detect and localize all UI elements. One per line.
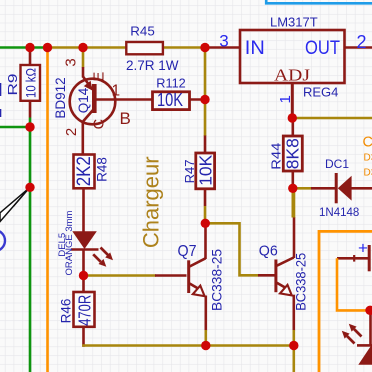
svg-text:10 kΩ: 10 kΩ [24, 68, 39, 98]
svg-text:BC338-25: BC338-25 [209, 249, 224, 311]
junction at Q14 emitter branch [78, 43, 87, 52]
wire dark-yellow horizontal top left of R45 [48, 46, 127, 49]
svg-text:2: 2 [356, 32, 366, 52]
svg-text:BD912: BD912 [53, 77, 68, 118]
resistor R46 [82, 276, 85, 293]
junction below LED DEL5 [79, 271, 88, 280]
svg-text:C: C [363, 135, 372, 151]
connector circle arc left edge [0, 230, 5, 251]
wire dark-red from LM317 OUT pin to right edge [345, 46, 372, 49]
junction at R112 output [200, 95, 209, 104]
resistor R9 [21, 65, 41, 101]
wire green horizontal top [0, 46, 49, 49]
svg-text:ORANGE 3mm: ORANGE 3mm [64, 210, 75, 275]
wire orange vertical [46, 48, 49, 372]
svg-text:E: E [92, 71, 108, 81]
wire yellow LED junction to Q7 base [83, 274, 156, 277]
svg-text:10K: 10K [157, 89, 184, 110]
svg-text:2: 2 [63, 128, 80, 136]
regulator REG4 LM317T [240, 30, 345, 83]
svg-text:IN: IN [245, 37, 265, 59]
wire R112 right to junction [190, 98, 207, 101]
svg-text:R46: R46 [59, 299, 74, 324]
junction at LM317 IN branch [200, 43, 209, 52]
svg-text:R44: R44 [268, 143, 283, 170]
wire yellow Q7 emitter to bottom rail [205, 330, 208, 346]
junction at orange branch [43, 43, 52, 52]
connector needle black pointer [0, 187, 30, 221]
svg-text:Q7: Q7 [178, 243, 197, 260]
transistor Q14 BD912 [70, 77, 153, 155]
wire R9 top pin [29, 48, 32, 66]
transistor Q6 BC338-25 [274, 217, 294, 331]
net label sliver left edge [0, 83, 1, 96]
junction at Q6 emitter bottom [289, 341, 298, 350]
svg-text:DC1: DC1 [325, 157, 349, 171]
frame orange box bottom right [319, 231, 372, 372]
resistor R47 [196, 153, 215, 189]
junction below R47 [201, 219, 210, 228]
bus cyan line top right [266, 0, 372, 3]
wire dark-red R47 top pin [204, 136, 207, 154]
svg-text:BC338-25: BC338-25 [294, 253, 309, 311]
wire green horizontal into dot at y127 [0, 126, 30, 129]
svg-text:1N4148: 1N4148 [319, 207, 359, 219]
wire dark-red Q14 emitter pin [82, 67, 85, 78]
LED arrows [347, 336, 355, 344]
svg-text:D3: D3 [364, 153, 372, 164]
svg-text:1: 1 [277, 95, 294, 103]
junction at LM317 ADJ [288, 113, 297, 122]
wire yellow junction to Q6 base [205, 223, 258, 275]
wire yellow diode junction [293, 187, 312, 190]
net label sliver2 left edge [0, 109, 1, 117]
wire dark-red Q7 base pin [155, 274, 187, 277]
wire yellow Q6 emitter to bottom rail [292, 330, 295, 346]
wire dark-yellow Q14 emitter net [82, 48, 85, 68]
wire dark-red Q7 collector pin [204, 223, 207, 259]
wire 2K2 to LED [82, 188, 85, 232]
svg-text:ADJ: ADJ [274, 66, 310, 85]
wire ADJ pin [291, 83, 294, 119]
svg-text:REG4: REG4 [303, 85, 338, 100]
svg-text:3: 3 [63, 58, 80, 66]
svg-text:R9: R9 [5, 74, 20, 96]
wire yellow R47 to junction [204, 206, 207, 223]
svg-text:Chargeur: Chargeur [138, 156, 163, 248]
svg-text:2K2: 2K2 [74, 156, 95, 186]
svg-text:+: + [358, 239, 368, 258]
wire yellow junction down to Q6 collector [291, 188, 294, 217]
resistor 2K2 R48 [74, 155, 95, 189]
wire yellow from ADJ junction to right edge [292, 117, 372, 120]
resistor R112 [153, 92, 190, 110]
wire green vertical left [29, 118, 32, 372]
svg-text:Q14: Q14 [76, 87, 91, 113]
svg-text:470R: 470R [74, 295, 94, 326]
wire dark-red R47 bottom pin [204, 189, 207, 206]
svg-text:1: 1 [112, 83, 121, 100]
wire dark-red to LM317 IN pin [205, 46, 240, 49]
resistor R45 [126, 42, 163, 54]
junction at bottom-right LED anode [365, 306, 372, 315]
svg-text:C: C [91, 119, 107, 129]
junction at R9 bottom [25, 122, 34, 131]
junction at Q7 emitter bottom [201, 341, 210, 350]
LED bottom right [342, 310, 372, 365]
diode DC1 1N4148 [336, 173, 372, 203]
svg-text:D3: D3 [364, 168, 372, 179]
resistor R44 [291, 118, 294, 137]
LED DEL5 [71, 231, 113, 276]
svg-text:OUT: OUT [305, 37, 340, 59]
wire dark-yellow horizontal top right of R45 [163, 46, 207, 49]
junction at needle probe [25, 183, 34, 192]
wire yellow bottom rail to bottom edge [292, 346, 295, 372]
transistor Q7 BC338-25 [187, 258, 206, 330]
wire dark-red diode pin [311, 187, 335, 190]
wire yellow bottom horizontal [82, 344, 294, 347]
wire yellow vertical x205 top [204, 48, 207, 137]
svg-text:R45: R45 [130, 24, 155, 39]
svg-text:2.7R 1W: 2.7R 1W [126, 58, 179, 73]
wire orange capacitor to LED junction [337, 258, 370, 310]
LED arrows [101, 248, 109, 256]
junction at R9 top [25, 43, 34, 52]
svg-text:10K: 10K [195, 154, 215, 185]
wire dark-red Q6 base pin [258, 274, 275, 277]
svg-text:B: B [120, 109, 131, 128]
svg-text:LM317T: LM317T [270, 15, 318, 30]
wire R9 bottom pin [29, 101, 32, 118]
svg-text:Q6: Q6 [259, 243, 278, 260]
svg-text:8K8: 8K8 [282, 138, 302, 169]
wire yellow Q6 collector net [293, 188, 296, 217]
capacitor plus terminal top right [337, 245, 370, 271]
svg-text:3: 3 [219, 32, 228, 51]
svg-text:R48: R48 [95, 157, 110, 182]
junction below R44 [288, 184, 297, 193]
